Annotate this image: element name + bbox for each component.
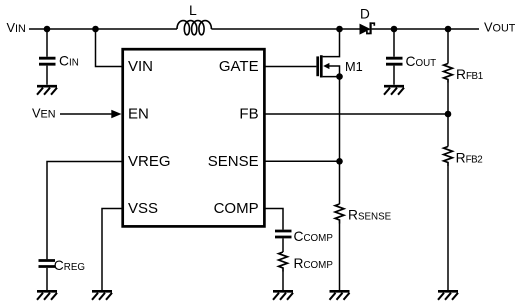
svg-text:FB: FB — [239, 106, 258, 123]
wire RSENSE to ground — [339, 224, 341, 291]
ground RFB2 — [438, 291, 458, 300]
node FB divider — [445, 111, 452, 118]
wire GATE to M1 — [265, 66, 316, 68]
wire EN input — [60, 113, 114, 115]
resistor RSENSE — [335, 204, 344, 224]
ground VSS — [92, 291, 112, 300]
svg-text:VREG: VREG — [128, 153, 171, 170]
node COUT tap — [391, 26, 398, 33]
diode D — [360, 22, 374, 34]
EN input arrowhead — [111, 110, 121, 119]
svg-text:VOUT: VOUT — [484, 20, 515, 35]
wire RFB1 to FB node — [447, 83, 449, 115]
svg-text:GATE: GATE — [219, 58, 259, 75]
ground COUT — [384, 86, 404, 95]
wire VOUT to RFB1 — [447, 29, 449, 64]
node drain-anode — [336, 26, 343, 33]
capacitor CREG — [39, 261, 56, 267]
node RFB1 tap — [445, 26, 452, 33]
ground CREG — [37, 291, 57, 300]
wire COUT tap — [393, 29, 395, 85]
capacitor CIN — [39, 58, 56, 64]
node VIN-CIN — [44, 26, 51, 33]
capacitor COUT — [386, 58, 403, 64]
wire top rail right — [372, 28, 479, 30]
resistor RFB1 — [444, 64, 453, 83]
node M1 source-body — [336, 73, 343, 80]
capacitor CCOMP — [275, 231, 292, 237]
ground CIN — [37, 86, 57, 95]
wire top rail left — [29, 28, 177, 30]
wire COMP — [265, 209, 283, 230]
wire M1 body — [329, 66, 340, 77]
wire M1 source — [323, 77, 340, 204]
svg-text:M1: M1 — [345, 59, 363, 74]
wire top rail mid — [211, 28, 360, 30]
svg-text:VSS: VSS — [128, 200, 158, 217]
svg-text:L: L — [189, 2, 197, 18]
svg-text:VEN: VEN — [32, 105, 56, 120]
wire M1 drain — [323, 29, 340, 57]
resistor RCOMP — [279, 252, 288, 272]
wire RFB2 to ground — [447, 166, 449, 290]
wire VIN pin branch — [96, 29, 122, 67]
svg-text:SENSE: SENSE — [208, 153, 259, 170]
resistor RFB2 — [444, 147, 453, 167]
svg-text:COMP: COMP — [214, 200, 259, 217]
node VIN-branch — [92, 26, 99, 33]
svg-text:VIN: VIN — [128, 58, 153, 75]
IC U1 — [123, 49, 265, 226]
node SENSE — [336, 158, 343, 165]
wire SENSE — [265, 160, 340, 162]
wire RCOMP to ground — [282, 272, 284, 291]
wire CCOMP to RCOMP — [282, 238, 284, 252]
wire FB — [265, 113, 448, 115]
svg-text:EN: EN — [128, 106, 149, 123]
ground RCOMP — [273, 291, 293, 300]
svg-text:VIN: VIN — [7, 20, 26, 35]
wire FB node to RFB2 — [447, 114, 449, 147]
svg-text:D: D — [360, 7, 370, 22]
wire CREG to ground — [46, 268, 48, 290]
wire CIN tap — [46, 29, 48, 85]
transistor M1 — [318, 55, 330, 77]
inductor L — [177, 21, 211, 35]
wire VSS to ground — [102, 209, 122, 291]
wire VREG to CREG — [47, 162, 122, 260]
ground RSENSE — [330, 291, 350, 300]
